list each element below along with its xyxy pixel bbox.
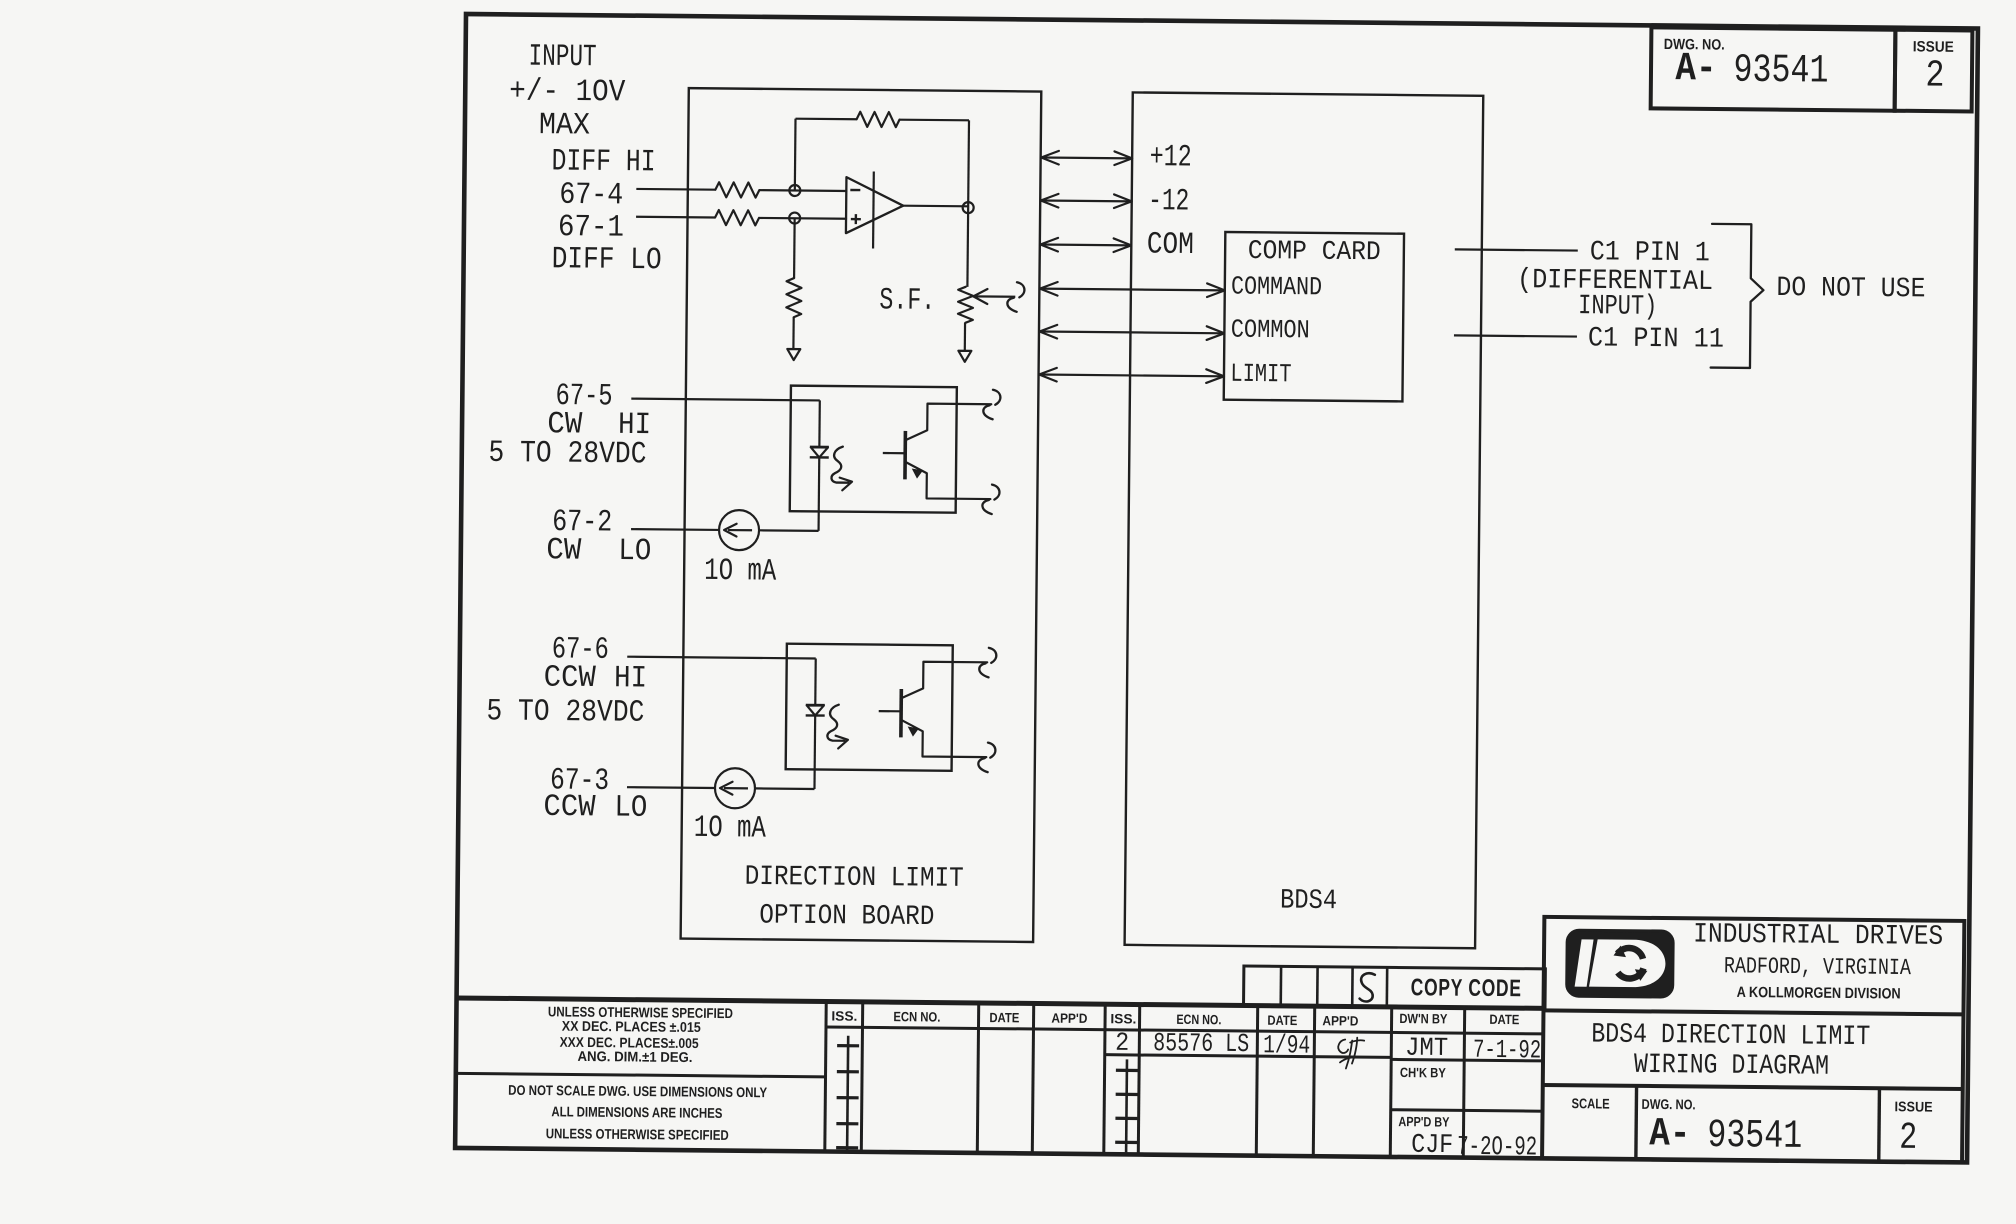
light arrow (CW) — [831, 447, 852, 491]
resistor input LO — [715, 210, 759, 225]
label DIFF HI — [551, 144, 655, 180]
svg-text:OPTION BOARD: OPTION BOARD — [759, 900, 934, 933]
svg-text:5 TO 28VDC: 5 TO 28VDC — [486, 694, 644, 731]
svg-text:DO NOT SCALE DWG. USE DIMENSIO: DO NOT SCALE DWG. USE DIMENSIONS ONLY — [508, 1082, 768, 1100]
value 2 (bottom) — [1899, 1117, 1917, 1160]
svg-text:DWG. NO.: DWG. NO. — [1642, 1096, 1696, 1113]
copy code cells — [1281, 966, 1387, 1007]
phototransistor emitter (CCW) — [901, 720, 987, 757]
text WIRING DIAGRAM — [1634, 1050, 1829, 1083]
revision row line (iss2) — [1105, 1055, 1391, 1058]
label HI (CCW row) — [614, 661, 647, 696]
hook emitter out (CCW) — [978, 743, 995, 773]
label ISSUE (bottom) — [1895, 1098, 1933, 1114]
value A- (top) — [1675, 47, 1716, 92]
header APP'D (right) — [1322, 1013, 1358, 1028]
svg-text:XX DEC. PLACES ±.015: XX DEC. PLACES ±.015 — [562, 1018, 701, 1035]
label LO (CCW row) — [614, 791, 647, 826]
svg-text:+/- 1OV: +/- 1OV — [509, 74, 626, 110]
wire to non-inverting input — [759, 217, 847, 220]
header ISS. (left) — [831, 1009, 857, 1024]
node output — [963, 202, 974, 213]
text BDS4 DIRECTION LIMIT — [1591, 1019, 1870, 1053]
arrow LIMIT — [1039, 368, 1224, 383]
dwg-no box (top) — [1651, 27, 1896, 110]
svg-text:JMT: JMT — [1405, 1033, 1448, 1063]
text all dimensions — [551, 1103, 722, 1121]
header DW'N BY — [1399, 1011, 1447, 1026]
label 10 mA (CCW) — [694, 811, 767, 847]
opto box (CW) — [790, 386, 957, 513]
wire output to S.F. pot — [966, 208, 969, 287]
svg-text:COMMON: COMMON — [1231, 315, 1310, 346]
feedback wire right vertical — [967, 120, 970, 207]
wire HI down to LED (CCW) — [814, 658, 817, 705]
text A KOLLMORGEN DIVISION — [1737, 984, 1901, 1003]
svg-text:COPY CODE: COPY CODE — [1411, 974, 1522, 1002]
wire 67-4 input — [636, 188, 715, 191]
svg-text:APP'D: APP'D — [1051, 1011, 1087, 1026]
svg-text:2: 2 — [1115, 1028, 1129, 1058]
direction limit option board box — [681, 88, 1042, 942]
text 7-1-92 — [1473, 1035, 1541, 1066]
text 7-20-92 — [1457, 1133, 1537, 1164]
svg-text:APP'D: APP'D — [1322, 1013, 1358, 1028]
node inverting input — [789, 185, 800, 196]
arrow COMMAND — [1040, 282, 1225, 297]
svg-text:1/94: 1/94 — [1263, 1030, 1310, 1060]
ground (non-inv divider) — [787, 349, 800, 360]
label 67-3 — [550, 763, 609, 799]
svg-text:ISSUE: ISSUE — [1895, 1098, 1933, 1114]
op-amp U1 — [846, 171, 904, 249]
rev ecn 85576 LS — [1153, 1028, 1249, 1059]
title section line — [1543, 1085, 1963, 1089]
svg-text:A-: A- — [1649, 1112, 1690, 1157]
label 67-6 — [552, 632, 609, 668]
header DATE (left) — [989, 1010, 1019, 1025]
text xxx dec places — [560, 1034, 699, 1051]
svg-text:+12: +12 — [1149, 140, 1191, 175]
BDS4 box — [1125, 92, 1484, 948]
label COMP CARD — [1248, 237, 1381, 268]
svg-text:LO: LO — [614, 791, 647, 826]
svg-text:93541: 93541 — [1733, 49, 1828, 95]
svg-text:DIFF LO: DIFF LO — [551, 242, 661, 278]
svg-text:1O mA: 1O mA — [694, 811, 767, 847]
label COMMAND — [1231, 271, 1322, 302]
company block frame — [1542, 917, 1964, 1163]
svg-text:DW'N BY: DW'N BY — [1399, 1011, 1447, 1026]
svg-text:7-2O-92: 7-2O-92 — [1457, 1133, 1537, 1164]
svg-text:ISS.: ISS. — [831, 1009, 857, 1024]
svg-text:DATE: DATE — [989, 1010, 1019, 1025]
svg-text:ECN NO.: ECN NO. — [1176, 1012, 1221, 1027]
text ang dim — [577, 1048, 692, 1065]
text xx dec places — [562, 1018, 701, 1035]
wire 67-1 input — [636, 216, 715, 219]
wire current source to LED (CW) — [759, 529, 818, 532]
text INDUSTRIAL DRIVES — [1693, 920, 1943, 953]
svg-text:5 TO 28VDC: 5 TO 28VDC — [488, 436, 646, 473]
label C1 PIN 11 — [1588, 323, 1724, 355]
revision table header line — [826, 1027, 1545, 1034]
node non-inverting input — [789, 213, 800, 224]
wire HI input (CCW) — [627, 657, 815, 659]
phototransistor base bar (CCW) — [899, 689, 903, 737]
hook emitter out (CW) — [982, 484, 999, 514]
svg-text:MAX: MAX — [539, 108, 591, 143]
label CW (HI row) — [547, 407, 583, 442]
wire HI input (CW) — [631, 399, 819, 401]
text RADFORD, VIRGINIA — [1724, 953, 1911, 981]
label ISSUE (top) — [1913, 38, 1954, 55]
phototransistor collector (CW) — [905, 403, 991, 441]
header APP'D BY — [1398, 1114, 1449, 1129]
wire LO input (CCW) — [627, 786, 715, 789]
arrow -12 — [1041, 194, 1132, 208]
svg-text:DO NOT USE: DO NOT USE — [1776, 273, 1925, 305]
resistor feedback — [857, 112, 900, 127]
svg-text:BDS4 DIRECTION LIMIT: BDS4 DIRECTION LIMIT — [1591, 1019, 1870, 1053]
pot wiper arrow — [973, 289, 1015, 304]
svg-text:1O mA: 1O mA — [704, 554, 777, 590]
svg-text:COMMAND: COMMAND — [1231, 271, 1322, 302]
rev date 1/94 — [1263, 1030, 1310, 1060]
label DO NOT USE — [1776, 273, 1925, 305]
svg-text:2: 2 — [1925, 55, 1944, 98]
label LO (CW row) — [618, 534, 651, 569]
svg-text:C1 PIN 1: C1 PIN 1 — [1590, 237, 1710, 269]
svg-text:67-1: 67-1 — [558, 210, 624, 246]
svg-text:COMP CARD: COMP CARD — [1248, 237, 1381, 268]
svg-text:67-4: 67-4 — [559, 178, 623, 214]
text CJF — [1411, 1131, 1453, 1161]
header DATE (right) — [1267, 1013, 1297, 1028]
wire pot to ground — [964, 323, 966, 350]
wire LED cathode down (CW) — [817, 457, 820, 531]
header ISS. (right) — [1110, 1011, 1136, 1026]
wire C1 pin 1 — [1455, 249, 1578, 250]
phototransistor base lead (CCW) — [879, 710, 901, 712]
revision table column lines — [861, 1002, 1464, 1158]
svg-text:SCALE: SCALE — [1572, 1095, 1610, 1111]
label DIRECTION LIMIT — [745, 862, 964, 895]
LED anode bar (CCW) — [806, 704, 825, 707]
svg-text:C1 PIN 11: C1 PIN 11 — [1588, 323, 1724, 355]
label CW (LO row) — [546, 533, 582, 568]
label INPUT — [528, 40, 596, 76]
header CH'K BY — [1400, 1065, 1446, 1080]
LED anode bar (CW) — [810, 446, 829, 449]
industrial drives logo — [1567, 930, 1674, 997]
phototransistor base lead (CW) — [883, 452, 905, 454]
wire LED cathode down (CCW) — [813, 715, 816, 789]
issue cell line — [1877, 1088, 1881, 1161]
current source 10mA (CCW) — [715, 768, 755, 808]
svg-text:85576 LS: 85576 LS — [1153, 1028, 1249, 1059]
LED triangle (CCW) — [807, 705, 824, 715]
value A- (bottom) — [1649, 1112, 1690, 1157]
feedback wire top left — [796, 118, 857, 121]
wire op-amp output — [903, 205, 968, 208]
label (DIFFERENTIAL — [1517, 265, 1713, 298]
wire resistor to ground — [792, 317, 795, 348]
signature CJF (handwritten) — [1338, 1037, 1364, 1068]
arrow COM — [1040, 238, 1131, 252]
svg-text:CCW: CCW — [543, 790, 596, 826]
label CCW (LO row) — [543, 790, 596, 826]
pot wiper hook — [1007, 282, 1024, 312]
label LIMIT — [1230, 359, 1291, 390]
company section line — [1543, 1010, 1963, 1014]
label OPTION BOARD — [759, 900, 934, 933]
svg-text:UNLESS OTHERWISE SPECIFIED: UNLESS OTHERWISE SPECIFIED — [546, 1125, 729, 1143]
title strip top line — [457, 998, 1545, 1008]
value 93541 (top) — [1733, 49, 1828, 95]
op-amp plus sign — [851, 214, 861, 224]
revision change bar (left) — [836, 1036, 859, 1150]
svg-text:DATE: DATE — [1267, 1013, 1297, 1028]
LED cathode bar (CCW) — [806, 714, 825, 717]
header ECN NO. (left) — [893, 1009, 940, 1024]
label C1 PIN 1 — [1590, 237, 1710, 269]
svg-text:7-1-92: 7-1-92 — [1473, 1035, 1541, 1066]
feedback wire top right — [900, 119, 969, 122]
header ECN NO. (right) — [1176, 1012, 1221, 1027]
label 67-2 — [552, 505, 612, 541]
wire LO input (CW) — [631, 528, 719, 531]
label +/- 10V — [509, 74, 626, 110]
wire C1 pin 11 — [1454, 335, 1577, 336]
svg-text:ALL DIMENSIONS ARE INCHES: ALL DIMENSIONS ARE INCHES — [551, 1103, 722, 1121]
copy code box — [1244, 966, 1546, 1008]
phototransistor collector (CCW) — [901, 662, 987, 700]
op-amp minus sign — [850, 189, 860, 191]
header DATE (name block) — [1489, 1012, 1519, 1027]
opto box (CCW) — [786, 644, 953, 771]
name block row line 1 — [1391, 1059, 1544, 1060]
svg-text:DIFF HI: DIFF HI — [551, 144, 655, 180]
feedback wire left vertical — [794, 119, 797, 191]
copy code S mark — [1360, 973, 1375, 1001]
svg-text:CJF: CJF — [1411, 1131, 1453, 1161]
label INPUT) — [1578, 291, 1657, 323]
svg-text:INPUT): INPUT) — [1578, 291, 1657, 323]
svg-text:RADFORD, VIRGINIA: RADFORD, VIRGINIA — [1724, 953, 1911, 981]
name block row line 2 — [1391, 1110, 1544, 1111]
svg-text:WIRING DIAGRAM: WIRING DIAGRAM — [1634, 1050, 1829, 1083]
label DWG. NO. (top) — [1664, 36, 1725, 54]
value 2 (top) — [1925, 55, 1944, 98]
issue box (top) — [1895, 30, 1973, 112]
text unless otherwise specified 2 — [546, 1125, 729, 1143]
label 67-5 — [555, 379, 612, 415]
svg-text:LO: LO — [618, 534, 651, 569]
text JMT — [1405, 1033, 1448, 1063]
svg-text:CW: CW — [546, 533, 582, 568]
svg-text:A-: A- — [1675, 47, 1716, 92]
sheet border frame — [455, 14, 1978, 1162]
svg-text:BDS4: BDS4 — [1280, 886, 1337, 918]
svg-text:CH'K BY: CH'K BY — [1400, 1065, 1446, 1080]
svg-text:DATE: DATE — [1489, 1012, 1519, 1027]
svg-text:-12: -12 — [1148, 184, 1189, 219]
label S.F. — [879, 283, 935, 319]
svg-text:ANG. DIM.±1 DEG.: ANG. DIM.±1 DEG. — [577, 1048, 692, 1065]
hook collector out (CCW) — [979, 648, 996, 678]
label -12 — [1148, 184, 1189, 219]
label COM — [1147, 228, 1194, 263]
svg-text:93541: 93541 — [1707, 1114, 1802, 1160]
spec box divider — [455, 998, 826, 1152]
svg-text:COM: COM — [1147, 228, 1194, 263]
arrow +12 — [1041, 151, 1132, 165]
svg-text:CCW: CCW — [544, 661, 597, 697]
label CCW (HI row) — [544, 661, 597, 697]
svg-text:DIRECTION LIMIT: DIRECTION LIMIT — [745, 862, 964, 895]
svg-text:INDUSTRIAL DRIVES: INDUSTRIAL DRIVES — [1693, 920, 1943, 953]
label 5 TO 28VDC (CW) — [488, 436, 646, 473]
phototransistor base bar (CW) — [903, 431, 907, 479]
label COMMON — [1231, 315, 1310, 346]
label 5 TO 28VDC (CCW) — [486, 694, 644, 731]
wire to inverting input — [759, 189, 847, 192]
LED triangle (CW) — [811, 447, 828, 457]
current source 10mA (CW) — [719, 510, 759, 550]
text do not scale — [508, 1082, 768, 1100]
svg-text:A KOLLMORGEN DIVISION: A KOLLMORGEN DIVISION — [1737, 984, 1901, 1003]
value 93541 (bottom) — [1707, 1114, 1802, 1160]
svg-text:ISSUE: ISSUE — [1913, 38, 1954, 55]
text unless otherwise specified 1 — [548, 1003, 733, 1021]
label SCALE — [1572, 1095, 1610, 1111]
label BDS4 — [1280, 886, 1337, 918]
label 67-4 — [559, 178, 623, 214]
wire HI down to LED (CW) — [818, 400, 821, 447]
LED cathode bar (CW) — [810, 456, 829, 459]
svg-text:S.F.: S.F. — [879, 283, 935, 319]
ground (S.F. pot) — [958, 351, 971, 362]
arrow COMMON — [1039, 325, 1224, 340]
svg-text:ECN NO.: ECN NO. — [893, 1009, 940, 1024]
label 67-1 — [558, 210, 624, 246]
scale cell line — [1634, 1086, 1638, 1159]
phototransistor emitter (CW) — [905, 462, 991, 499]
hook collector out (CW) — [983, 390, 1000, 420]
light arrow (CCW) — [827, 705, 848, 749]
label MAX — [539, 108, 591, 143]
label +12 — [1149, 140, 1191, 175]
label 10 mA (CW) — [704, 554, 777, 590]
svg-text:ISS.: ISS. — [1110, 1011, 1136, 1026]
rev iss 2 — [1115, 1028, 1129, 1058]
wire non-inv to ground resistor — [793, 218, 796, 278]
potentiometer S.F. — [958, 287, 973, 323]
label DIFF LO — [551, 242, 661, 278]
label COPY CODE — [1411, 974, 1522, 1002]
svg-text:HI: HI — [614, 661, 647, 696]
label DWG. NO. (bottom) — [1642, 1096, 1696, 1113]
resistor input HI — [715, 182, 759, 197]
svg-text:INPUT: INPUT — [528, 40, 596, 76]
brace do-not-use — [1711, 224, 1764, 368]
wire current source to LED (CCW) — [755, 787, 814, 790]
svg-text:LIMIT: LIMIT — [1230, 359, 1291, 390]
svg-text:2: 2 — [1899, 1117, 1917, 1160]
label HI (CW row) — [618, 408, 651, 443]
svg-text:APP'D BY: APP'D BY — [1398, 1114, 1449, 1129]
header APP'D (left) — [1051, 1011, 1087, 1026]
revision change bar (right) — [1115, 1059, 1138, 1152]
resistor to ground (non-inv) — [786, 278, 801, 317]
comp card box — [1224, 232, 1404, 401]
